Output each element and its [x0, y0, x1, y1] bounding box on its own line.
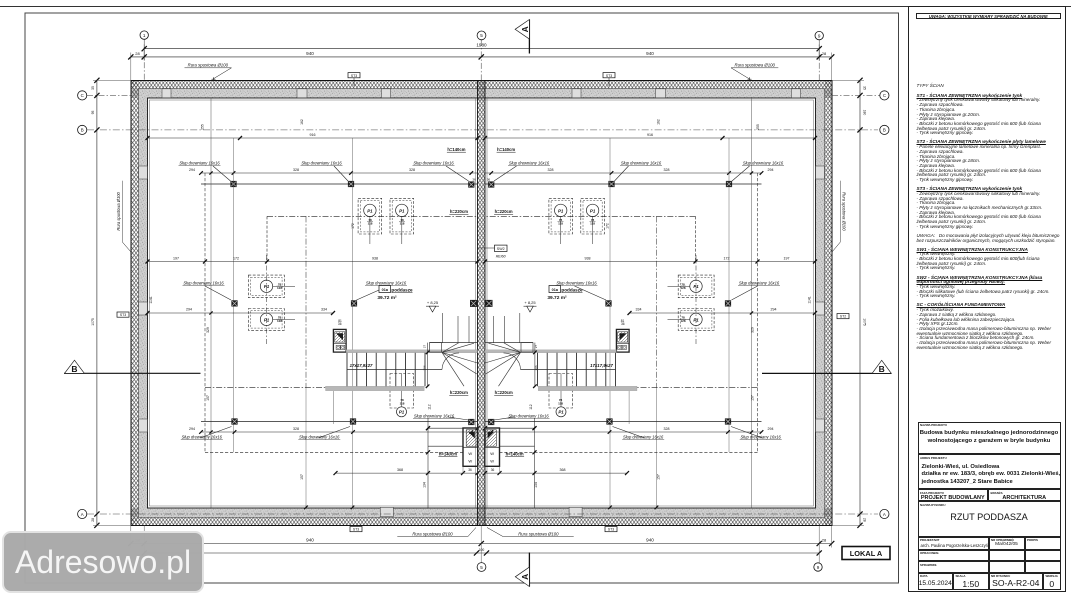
svg-text:334: 334 — [636, 308, 642, 312]
svg-text:328: 328 — [664, 427, 670, 431]
svg-text:1075: 1075 — [91, 318, 95, 326]
axis 9 circle bottom — [814, 563, 822, 571]
left unit knee-wall bottom columns — [231, 418, 237, 424]
right unit stair treads — [615, 353, 617, 386]
left unit column leader lines bottom row — [200, 427, 232, 439]
right unit interior vertical dim line x211 — [751, 98, 753, 508]
svg-text:Słup drewniany 16x16: Słup drewniany 16x16 — [741, 434, 782, 439]
title block bottom row — [918, 573, 954, 591]
svg-text:A: A — [520, 574, 530, 580]
page top border line — [0, 6, 1071, 8]
svg-text:Słup drewniany 16x16: Słup drewniany 16x16 — [299, 434, 340, 439]
svg-text:294: 294 — [768, 427, 774, 431]
svg-text:36: 36 — [338, 322, 342, 326]
svg-text:329: 329 — [751, 327, 755, 333]
right unit h220 contour bottom — [637, 387, 758, 389]
svg-text:poddasze: poddasze — [561, 288, 583, 293]
svg-text:Słup drewniany 16x16: Słup drewniany 16x16 — [366, 280, 407, 285]
svg-text:ST3: ST3 — [353, 528, 359, 532]
svg-text:1980: 1980 — [476, 42, 487, 47]
svg-text:Słup drewniany 16x16: Słup drewniany 16x16 — [621, 160, 662, 165]
left unit interior dim line y313 — [148, 312, 334, 314]
SW2 wall label — [495, 245, 508, 251]
svg-text:B: B — [883, 128, 886, 133]
svg-text:B: B — [81, 128, 84, 133]
svg-text:134: 134 — [423, 482, 427, 488]
LOKAL A label — [842, 547, 890, 560]
svg-text:100: 100 — [479, 548, 485, 552]
left unit knee-wall top columns — [230, 181, 236, 187]
svg-text:328: 328 — [409, 168, 415, 172]
right unit h140 contour bottom dashed — [500, 451, 758, 453]
svg-text:Słup drewniany 16x16: Słup drewniany 16x16 — [413, 160, 454, 165]
svg-text:328: 328 — [548, 168, 554, 172]
right unit knee-wall top columns — [726, 181, 732, 187]
svg-text:180: 180 — [863, 110, 867, 116]
svg-text:9: 9 — [818, 33, 821, 38]
svg-text:P1: P1 — [558, 410, 564, 415]
svg-text:h=220cm: h=220cm — [450, 390, 468, 395]
left unit column leader lines top row — [213, 166, 231, 181]
right unit knee-wall dim line top — [485, 172, 762, 174]
left unit stair opening top gray strip — [346, 350, 477, 353]
svg-text:172: 172 — [606, 223, 610, 229]
svg-text:+ 8,25: + 8,25 — [524, 300, 536, 305]
svg-text:Słup drewniany 16x16: Słup drewniany 16x16 — [301, 160, 342, 165]
section flag A top — [528, 20, 530, 54]
right vertical dimension line — [859, 80, 861, 525]
wall pier right — [816, 302, 825, 315]
right unit interior dim line y138 — [485, 137, 815, 139]
svg-text:36: 36 — [491, 468, 495, 472]
right unit stair opening top gray strip — [485, 350, 616, 353]
svg-text:W: W — [468, 459, 472, 464]
svg-text:294: 294 — [186, 308, 192, 312]
svg-text:940: 940 — [646, 537, 654, 542]
svg-text:938: 938 — [585, 256, 591, 260]
wall pier left — [139, 302, 148, 315]
right unit mid row columns — [725, 300, 731, 306]
svg-text:Słup drewniany 16x16: Słup drewniany 16x16 — [179, 160, 220, 165]
wall pier left knee — [139, 419, 148, 432]
title block row project name — [918, 422, 1061, 455]
ST3 box bottom-right — [605, 527, 617, 532]
rura leader cross top-left — [212, 78, 216, 80]
right unit column leader lines bottom row — [731, 427, 763, 439]
svg-text:28: 28 — [91, 518, 95, 522]
svg-text:A: A — [883, 512, 886, 517]
svg-text:P1: P1 — [399, 410, 405, 415]
svg-text:17x17,9x27: 17x17,9x27 — [350, 363, 373, 368]
bottom dimension line outer — [144, 552, 819, 554]
svg-text:Słup drewniany 16x16: Słup drewniany 16x16 — [509, 160, 550, 165]
svg-text:328: 328 — [664, 168, 670, 172]
title block sprawdzil — [918, 561, 989, 573]
svg-text:28: 28 — [863, 518, 867, 522]
svg-text:368: 368 — [560, 468, 566, 472]
svg-text:294: 294 — [189, 168, 195, 172]
svg-text:h=140cm: h=140cm — [497, 147, 515, 152]
left unit ventilation shaft — [463, 428, 478, 466]
exterior wall right - insulation hatch — [825, 81, 833, 526]
top dimension line 940+940 — [131, 56, 831, 58]
svg-text:36: 36 — [468, 468, 472, 472]
svg-text:95: 95 — [91, 111, 95, 115]
wall outer edge — [131, 81, 832, 526]
left unit column grid vertical lines — [233, 138, 235, 452]
ST3 box left wall — [117, 312, 129, 317]
svg-text:328: 328 — [293, 427, 299, 431]
left vertical dimension line — [96, 80, 98, 525]
left axis A circle — [78, 509, 87, 518]
svg-text:Rura spustowa Ø100: Rura spustowa Ø100 — [518, 531, 559, 536]
svg-text:118: 118 — [400, 402, 405, 406]
right unit knee-wall line top — [485, 183, 762, 185]
svg-text:28: 28 — [822, 537, 827, 542]
svg-text:27: 27 — [534, 345, 538, 349]
svg-text:39.72 m²: 39.72 m² — [377, 295, 397, 301]
right unit h220 contour left vertical — [656, 216, 658, 387]
svg-text:P1: P1 — [693, 317, 699, 322]
svg-text:h=220cm: h=220cm — [450, 209, 468, 214]
svg-text:Słup drewniany 16x16: Słup drewniany 16x16 — [508, 413, 549, 418]
section flag A bottom — [528, 553, 530, 587]
left unit h220 contour left vertical — [305, 216, 307, 387]
left unit room label — [379, 286, 391, 293]
left unit roof window below stairs — [390, 374, 414, 409]
wall pier right knee — [816, 419, 825, 432]
svg-text:Słup drewniany 16x16: Słup drewniany 16x16 — [556, 280, 597, 285]
right unit vertical dim x428 — [534, 418, 536, 508]
svg-text:h=220cm: h=220cm — [495, 209, 513, 214]
axis A line across — [87, 513, 878, 515]
left unit knee-wall line top — [201, 183, 478, 185]
right unit bottom area dim y473 — [485, 472, 627, 474]
svg-text:172: 172 — [351, 223, 355, 229]
svg-text:W: W — [490, 459, 494, 464]
right unit knee-wall dim line bottom — [485, 431, 762, 433]
svg-text:A: A — [520, 26, 530, 32]
left unit stair opening bottom gray strip — [326, 386, 425, 391]
svg-text:P1: P1 — [399, 208, 405, 213]
svg-text:172: 172 — [724, 256, 730, 260]
svg-text:118: 118 — [590, 221, 595, 225]
right unit roof window pair box 1 — [581, 198, 605, 234]
svg-text:ST3: ST3 — [351, 74, 357, 78]
svg-text:5: 5 — [480, 565, 483, 570]
right unit stair opening bottom gray strip — [538, 386, 637, 391]
svg-text:Słup drewniany 16x16: Słup drewniany 16x16 — [739, 280, 780, 285]
svg-text:28: 28 — [135, 51, 140, 56]
svg-text:294: 294 — [771, 308, 777, 312]
title block projektant — [918, 537, 989, 550]
svg-text:35: 35 — [91, 86, 95, 90]
left unit winder edge dim — [427, 343, 429, 387]
exterior wall bottom - insulation hatch — [131, 518, 832, 526]
svg-text:h=220cm: h=220cm — [495, 390, 513, 395]
svg-text:162: 162 — [300, 119, 304, 125]
left unit roof window left-column pair — [248, 275, 284, 298]
svg-text:128: 128 — [680, 319, 685, 323]
svg-text:916: 916 — [310, 133, 316, 137]
left unit h220 contour corner jog — [266, 216, 268, 262]
svg-text:C: C — [81, 93, 84, 98]
insulation inner boundary lines — [139, 88, 825, 90]
svg-text:B: B — [71, 364, 77, 374]
left unit vertical dim x428 — [427, 418, 429, 508]
svg-text:ST2: ST2 — [840, 315, 846, 319]
svg-text:ST3: ST3 — [608, 528, 614, 532]
uwaga header box — [916, 13, 1061, 20]
svg-text:36: 36 — [487, 178, 491, 182]
svg-text:Słup drewniany 16x16: Słup drewniany 16x16 — [182, 434, 223, 439]
right unit interior dim line y313 — [630, 312, 816, 314]
svg-text:134: 134 — [534, 482, 538, 488]
axis B line across — [87, 129, 878, 131]
svg-text:+ 8,25: + 8,25 — [427, 300, 439, 305]
svg-text:916: 916 — [647, 133, 653, 137]
left unit interior dim line y261 — [148, 261, 478, 263]
left unit knee-wall line bottom — [201, 421, 478, 423]
svg-text:118: 118 — [368, 221, 373, 225]
left unit roof edge dashed vertical — [204, 173, 206, 452]
svg-text:Rura spustowa Ø100: Rura spustowa Ø100 — [116, 191, 121, 230]
right unit column grid vertical lines — [728, 138, 730, 452]
right unit knee-wall line bottom — [485, 421, 762, 423]
svg-text:112: 112 — [529, 404, 533, 410]
svg-text:294: 294 — [768, 168, 774, 172]
left unit knee-wall dim line bottom — [201, 431, 478, 433]
svg-text:128: 128 — [680, 286, 685, 290]
svg-text:W: W — [468, 451, 472, 456]
svg-text:Rura spustowa Ø100: Rura spustowa Ø100 — [735, 63, 776, 68]
left unit bottom area dim y446 — [428, 445, 463, 447]
svg-text:W: W — [490, 451, 494, 456]
left unit mid row columns — [231, 300, 237, 306]
right unit knee-wall bottom columns — [725, 418, 731, 424]
top dimension line 1980 — [144, 48, 819, 50]
svg-text:157: 157 — [657, 474, 661, 480]
left unit h220 contour dashdot — [267, 215, 478, 217]
svg-text:P1: P1 — [693, 284, 699, 289]
svg-text:Rura spustowa Ø100: Rura spustowa Ø100 — [188, 63, 229, 68]
left unit stair treads — [346, 353, 348, 386]
section flag B right — [762, 372, 891, 374]
right unit bottom area dim y428 — [485, 427, 535, 429]
svg-text:36: 36 — [621, 322, 625, 326]
left unit stair chimney extension line — [332, 391, 334, 424]
left unit interior vertical dim line x211 — [210, 98, 212, 508]
left axis C circle — [78, 91, 87, 100]
svg-text:157: 157 — [751, 395, 755, 401]
left unit roof window pair box 1 — [358, 198, 382, 234]
svg-text:334: 334 — [321, 308, 327, 312]
central wall plaster lines — [475, 98, 477, 508]
right axis A circle — [880, 509, 889, 518]
right unit room label — [549, 286, 561, 293]
right unit stair winder fan — [485, 342, 533, 344]
svg-text:106: 106 — [422, 365, 426, 370]
exterior wall top - masonry — [131, 89, 832, 99]
right unit stair column at wall — [488, 419, 494, 425]
right panel outer box — [908, 6, 1066, 592]
left unit roof window pair box 2 — [390, 198, 414, 234]
svg-text:poddasze: poddasze — [391, 288, 413, 293]
svg-text:Słup drewniany 16x16: Słup drewniany 16x16 — [414, 413, 455, 418]
wall inner plaster line — [150, 100, 814, 506]
svg-text:P1: P1 — [558, 208, 564, 213]
svg-text:940: 940 — [306, 537, 314, 542]
svg-text:118: 118 — [558, 402, 563, 406]
svg-text:P1: P1 — [264, 284, 270, 289]
svg-text:294: 294 — [189, 427, 195, 431]
right unit h220 contour corner jog — [695, 216, 697, 262]
left unit h220 contour bottom — [205, 387, 326, 389]
left unit column leader lines mid row — [205, 286, 231, 300]
svg-text:112: 112 — [428, 404, 432, 410]
svg-text:h=140cm: h=140cm — [506, 451, 524, 456]
adresowo watermark — [2, 531, 204, 593]
svg-text:36: 36 — [472, 178, 476, 182]
wall piers top — [162, 89, 171, 98]
svg-text:Rura spustowa Ø100: Rura spustowa Ø100 — [842, 192, 847, 231]
right unit stair chimney extension line — [628, 391, 630, 424]
svg-text:28: 28 — [822, 51, 827, 56]
svg-text:39.72 m²: 39.72 m² — [547, 295, 567, 301]
svg-text:128: 128 — [277, 286, 282, 290]
svg-text:LOKAL A: LOKAL A — [850, 549, 883, 558]
wall types text block — [917, 84, 1061, 355]
wall piers bottom — [380, 507, 393, 516]
svg-text:197: 197 — [784, 256, 790, 260]
svg-text:162: 162 — [657, 119, 661, 125]
right unit winder edge dim — [534, 343, 536, 387]
section flag B left — [64, 372, 201, 374]
svg-text:1075: 1075 — [863, 318, 867, 326]
svg-text:27: 27 — [422, 345, 426, 349]
axis 5 extension + circle top — [480, 40, 482, 81]
svg-text:940: 940 — [646, 51, 654, 56]
svg-text:C: C — [883, 93, 886, 98]
right unit roof edge dashed vertical — [757, 173, 759, 452]
svg-text:255: 255 — [201, 124, 205, 130]
svg-text:106: 106 — [534, 365, 538, 370]
bottom dimension line 940+940 — [131, 543, 831, 545]
left unit stair winder fan — [430, 342, 478, 344]
svg-text:SW2: SW2 — [497, 247, 505, 251]
right unit ventilation shaft — [485, 428, 500, 466]
dimension extension lines bottom — [130, 526, 132, 548]
svg-text:01a: 01a — [552, 288, 559, 292]
svg-text:A: A — [81, 512, 84, 517]
left unit knee-wall dim line top — [201, 172, 478, 174]
exterior wall left - masonry — [139, 89, 148, 509]
svg-text:128: 128 — [277, 319, 282, 323]
title block row faza/branza — [918, 489, 989, 501]
exterior wall right - masonry — [816, 89, 825, 509]
svg-text:118: 118 — [400, 221, 405, 225]
ST3 box top-left — [348, 73, 360, 78]
svg-text:17x17,9x27: 17x17,9x27 — [590, 363, 613, 368]
right unit stair chimney box — [616, 329, 629, 352]
svg-text:940: 940 — [306, 51, 314, 56]
svg-text:P1: P1 — [264, 317, 270, 322]
ST2 box right wall — [837, 314, 849, 319]
right unit column leader lines top row — [732, 166, 750, 181]
left unit bottom area dim y428 — [428, 427, 478, 429]
svg-text:197: 197 — [173, 256, 179, 260]
left unit interior dim line y138 — [148, 137, 478, 139]
central party wall SW2 — [478, 81, 486, 526]
svg-text:157: 157 — [206, 395, 210, 401]
title block drawing name — [918, 501, 1061, 537]
svg-text:5: 5 — [480, 33, 483, 38]
svg-text:938: 938 — [372, 256, 378, 260]
left unit bottom area dim y473 — [336, 472, 478, 474]
svg-text:118: 118 — [558, 221, 563, 225]
left unit stair well verticals — [442, 313, 444, 343]
ST3 box bottom-left — [350, 527, 362, 532]
svg-text:01a: 01a — [382, 288, 389, 292]
right axis B circle — [880, 125, 889, 134]
dimension extension lines top — [130, 53, 132, 81]
exterior wall left - insulation hatch — [131, 81, 139, 526]
right unit roof window left-column pair — [678, 275, 714, 298]
svg-text:P1: P1 — [590, 208, 596, 213]
svg-text:P1: P1 — [367, 208, 373, 213]
left axis B circle — [78, 125, 87, 134]
title block opracowal — [918, 550, 989, 562]
svg-text:9: 9 — [817, 565, 820, 570]
svg-text:1: 1 — [143, 33, 146, 38]
left unit stair chimney box — [333, 329, 346, 352]
svg-text:1141: 1141 — [149, 296, 153, 303]
svg-text:328: 328 — [293, 168, 299, 172]
right unit level mark triangle — [527, 306, 534, 312]
svg-text:ST3: ST3 — [120, 313, 126, 317]
wall inner edge — [148, 98, 816, 508]
right unit roof window pair box 2 — [549, 198, 573, 234]
svg-text:255: 255 — [756, 124, 760, 130]
svg-text:Słup drewniany 16x16: Słup drewniany 16x16 — [623, 434, 664, 439]
right unit stair walk line — [521, 369, 616, 371]
axis 5 circle bottom — [477, 563, 486, 572]
right unit roof window below stairs — [549, 374, 573, 409]
svg-text:329: 329 — [206, 327, 210, 333]
rura leader cross top-right — [748, 78, 752, 80]
svg-text:368: 368 — [397, 468, 403, 472]
left unit level mark triangle — [429, 306, 436, 312]
svg-text:1141: 1141 — [808, 296, 812, 303]
exterior wall bottom - masonry — [131, 508, 832, 518]
svg-text:h=140cm: h=140cm — [439, 451, 457, 456]
svg-text:Rura spustowa Ø100: Rura spustowa Ø100 — [412, 531, 453, 536]
ST3 box top-right — [603, 73, 615, 78]
svg-text:B: B — [879, 364, 885, 374]
right unit column leader lines mid row — [732, 286, 758, 300]
axis 1 extension + circle top — [143, 39, 145, 80]
svg-text:172: 172 — [233, 256, 239, 260]
drawing sheet frame — [25, 13, 899, 583]
svg-text:REI60: REI60 — [496, 254, 506, 258]
left unit stair column at wall — [468, 419, 474, 425]
right unit h220 contour dashdot — [485, 215, 696, 217]
svg-text:Słup drewniany 16x16: Słup drewniany 16x16 — [183, 280, 224, 285]
svg-text:157: 157 — [300, 474, 304, 480]
right unit bottom area dim y446 — [500, 445, 535, 447]
axis 9 extension + circle top — [818, 40, 820, 81]
svg-text:h=140cm: h=140cm — [447, 147, 465, 152]
